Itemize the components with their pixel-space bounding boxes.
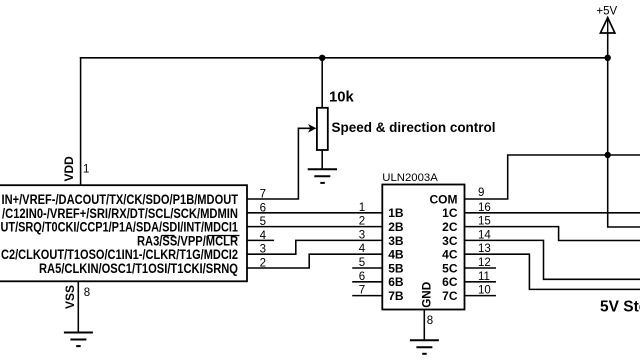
junction pot top (319, 55, 325, 61)
svg-text:7B: 7B (388, 289, 404, 303)
svg-text:10: 10 (478, 285, 491, 297)
svg-text:1C: 1C (442, 206, 458, 220)
svg-text:GND: GND (420, 281, 434, 307)
svg-text:IN+/VREF-/DACOUT/TX/CK/SDO/P1B: IN+/VREF-/DACOUT/TX/CK/SDO/P1B/MDOUT (2, 192, 239, 207)
wire pin5 to 2B (247, 226, 382, 228)
svg-text:RA5/CLKIN/OSC1/T1OSI/T1CKI/SRN: RA5/CLKIN/OSC1/T1OSI/T1CKI/SRNQ (39, 261, 238, 276)
wire 6B stub (353, 281, 382, 283)
svg-text:5: 5 (260, 216, 266, 228)
svg-text:8: 8 (84, 287, 90, 299)
wire pin3 to 3B (247, 240, 382, 254)
svg-text:4B: 4B (388, 248, 404, 262)
wire 2C out (465, 227, 640, 241)
wire 6C stub (465, 281, 496, 283)
svg-text:/C12IN0-/VREF+/SRI/RX/DT/SCL/S: /C12IN0-/VREF+/SRI/RX/DT/SCL/SCK/MDMIN (2, 206, 238, 221)
svg-text:16: 16 (478, 202, 491, 214)
wire pot top (321, 58, 323, 108)
junction +5V top rail (605, 55, 611, 61)
resistor R1 potentiometer body (317, 108, 328, 150)
svg-text:12: 12 (478, 257, 491, 269)
svg-text:5: 5 (359, 257, 365, 269)
svg-text:Speed & direction control: Speed & direction control (332, 119, 496, 135)
IC U2 ULN2003A box (382, 185, 464, 310)
wire 1C out (465, 212, 640, 214)
svg-text:+5V: +5V (596, 5, 617, 17)
wire pin2 to 4B (247, 254, 382, 268)
wire 5B stub (353, 267, 382, 269)
wire 7B stub (353, 295, 382, 297)
wire 3C out (465, 240, 640, 279)
svg-text:1: 1 (359, 202, 365, 214)
svg-text:14: 14 (478, 229, 491, 241)
svg-text:4: 4 (260, 230, 267, 242)
wire COM pin9 to +5V rail (465, 155, 640, 199)
svg-text:3: 3 (359, 229, 365, 241)
wire pin4 stub MCLR (247, 239, 273, 241)
wire pin6 to 1B (247, 212, 382, 214)
svg-text:7: 7 (359, 285, 365, 297)
svg-text:10k: 10k (329, 88, 354, 105)
svg-text:6: 6 (260, 202, 266, 214)
wire wiper to pin 7 (247, 128, 311, 199)
svg-text:VSS: VSS (63, 285, 77, 309)
svg-text:3: 3 (260, 244, 266, 256)
wire top supply rail (81, 57, 608, 59)
junction +5V COM rail (605, 152, 611, 158)
svg-text:6: 6 (359, 271, 365, 283)
IC U1 PIC box (0, 185, 247, 281)
ground under pot (308, 169, 337, 183)
svg-text:2: 2 (260, 258, 266, 270)
wire 4C out (465, 254, 640, 289)
overline SS (161, 235, 174, 237)
svg-text:COM: COM (430, 192, 458, 206)
wire VSS down (77, 281, 79, 331)
svg-text:UT/SRQ/T0CKI/CCP1/P1A/SDA/SDI/: UT/SRQ/T0CKI/CCP1/P1A/SDA/SDI/INT/MDCI1 (1, 220, 239, 235)
wire 5C stub (465, 267, 496, 269)
wire 7C stub (465, 295, 496, 297)
svg-text:4C: 4C (442, 248, 458, 262)
svg-text:5V Stepper motor: 5V Stepper motor (600, 298, 640, 315)
ground under PIC VSS (64, 333, 93, 347)
svg-text:6B: 6B (388, 275, 404, 289)
ground under ULN GND (410, 340, 439, 354)
svg-text:1B: 1B (388, 206, 404, 220)
svg-text:4: 4 (359, 243, 366, 255)
svg-text:5C: 5C (442, 261, 458, 275)
svg-text:9: 9 (478, 187, 484, 199)
svg-text:3B: 3B (388, 234, 404, 248)
wire pot bottom (321, 150, 323, 168)
svg-text:1: 1 (83, 163, 89, 175)
svg-text:5B: 5B (388, 261, 404, 275)
svg-text:8: 8 (427, 315, 433, 327)
svg-text:3C: 3C (442, 234, 458, 248)
svg-text:ULN2003A: ULN2003A (382, 172, 438, 184)
svg-text:C2/CLKOUT/T1OSO/C1IN1-/CLKR/T1: C2/CLKOUT/T1OSO/C1IN1-/CLKR/T1G/MDCI2 (1, 247, 238, 262)
svg-text:15: 15 (478, 216, 491, 228)
power +5V symbol (596, 5, 617, 33)
svg-text:6C: 6C (442, 275, 458, 289)
wire +5V vertical rail (608, 18, 640, 227)
svg-text:2B: 2B (388, 220, 404, 234)
wiper arrow (308, 124, 316, 133)
svg-text:7C: 7C (442, 289, 458, 303)
svg-text:2: 2 (359, 216, 365, 228)
wire VDD riser (80, 58, 82, 185)
svg-text:13: 13 (478, 243, 491, 255)
svg-text:11: 11 (478, 271, 490, 283)
overline MCLR (207, 235, 239, 237)
wire ULN GND down (423, 310, 425, 340)
svg-text:VDD: VDD (62, 156, 76, 182)
svg-text:2C: 2C (442, 220, 458, 234)
svg-text:7: 7 (260, 189, 266, 201)
